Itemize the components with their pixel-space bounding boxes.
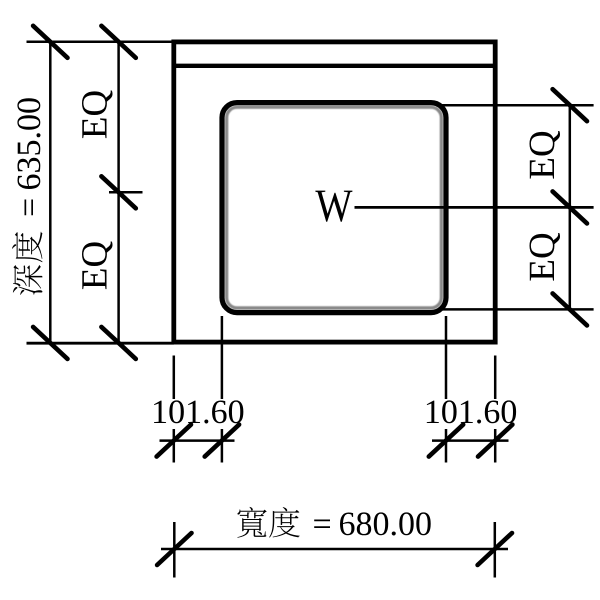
width tick right [478,533,512,565]
tick C bottom [553,293,587,325]
EQ mid witness stub [109,191,143,194]
depth dim: top extension line [27,41,174,44]
tick B mid [101,176,135,208]
left 101.60: outer witness line lower [173,429,176,463]
depth dim line A [49,42,52,343]
EQ label left top [82,91,113,139]
width dim left witness bar [173,522,176,578]
left 101.60 tick left [157,425,191,457]
right 101.60: basin witness line upper [445,316,448,399]
left 101.60: basin witness line lower [221,429,224,463]
left 101.60 dim line [160,439,235,442]
basin EQ: top extension line [436,104,594,107]
right 101.60 dim line [432,439,509,442]
EQ label right bottom [530,233,561,281]
depth dim: bottom extension line [27,342,174,345]
basin EQ: bottom extension line [438,308,594,311]
right 101.60 tick right [478,425,512,457]
counter outer rectangle [174,42,495,342]
EQ label right top [530,131,561,179]
left 101.60: basin witness line upper [221,316,224,399]
tick C top [553,89,587,121]
tick B bottom [101,327,135,359]
width tick left [157,533,191,565]
left 101.60: outer witness line upper [173,356,176,400]
right 101.60: outer witness line lower [494,429,497,463]
W leader line [355,206,594,209]
sink basin black stroke [222,103,446,313]
right 101.60 tick left [429,425,463,457]
width label: 寬度 = 680.00 [237,507,430,538]
tick B top [101,26,135,58]
right 101.60: outer witness line upper [494,356,497,400]
width dim right witness bar [494,522,497,578]
left 101.60 tick right [205,425,239,457]
left 101.60 text [154,400,243,423]
right 101.60 text [427,400,516,423]
EQ dim line B [117,42,120,343]
basin EQ dim line C [569,105,572,309]
W parameter label [315,191,352,222]
tick C mid [553,191,587,223]
depth label: 深度 = 635.00 (rotated) [12,98,43,295]
right 101.60: basin witness line lower [445,429,448,463]
tick A top [33,26,67,58]
sink basin gray inner stroke [227,107,442,308]
EQ label left bottom [82,242,113,290]
width dim line [161,548,508,551]
backsplash line [172,64,498,68]
tick A bottom [33,327,67,359]
